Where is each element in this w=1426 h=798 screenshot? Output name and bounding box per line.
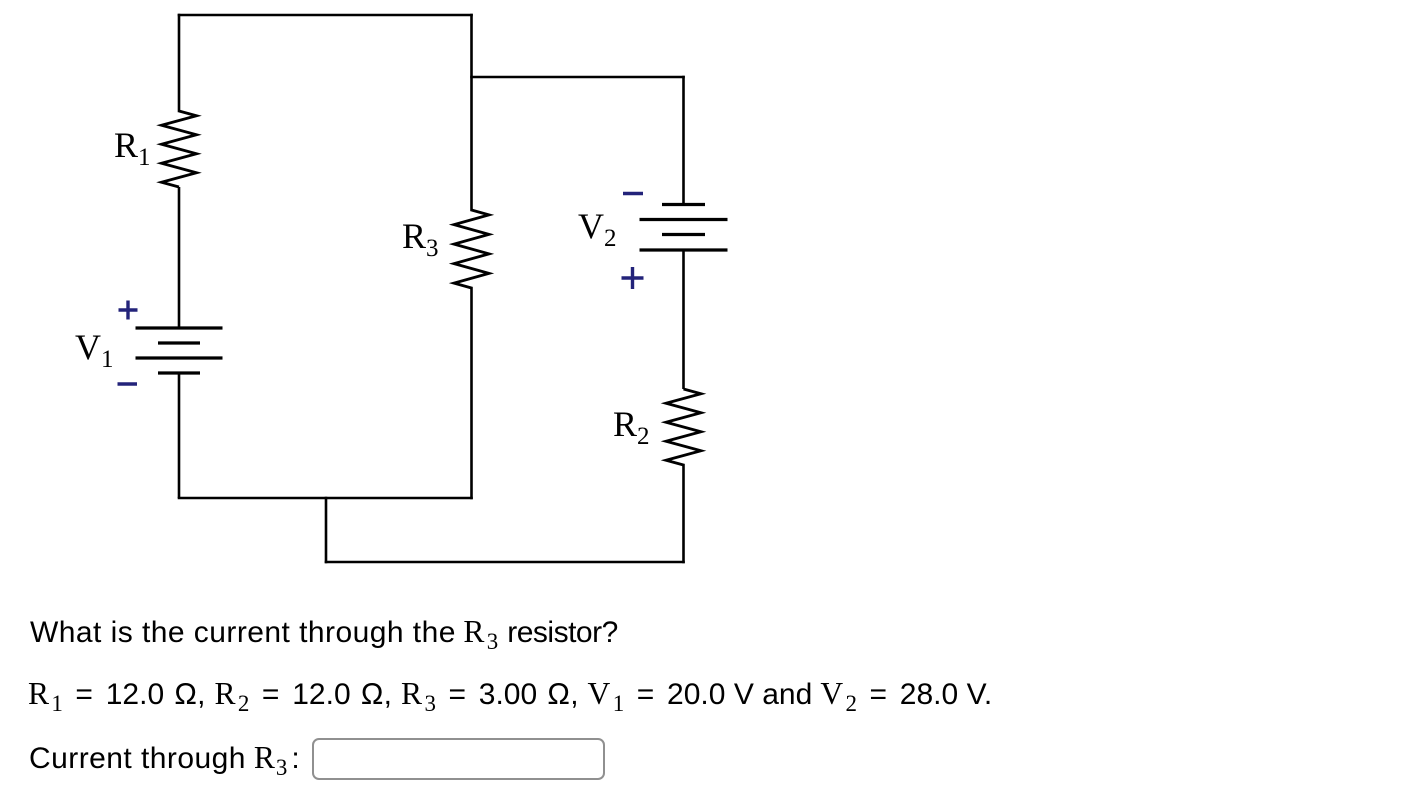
battery V1 plate long top [136,326,223,329]
battery V2 plate short bottom [662,233,705,236]
wire second horizontal [472,76,684,79]
battery V2 plate long bottom [640,248,728,251]
battery V2 plate long [640,218,728,221]
wire left vertical middle [178,187,181,327]
svg-text:R3: R3 [402,216,439,262]
svg-text:V1: V1 [75,327,114,373]
wire middle vertical lower [470,288,473,498]
resistor R1 [162,111,197,187]
wire bottom horizontal left loop [179,497,472,500]
wire middle vertical upper [470,15,473,210]
battery V2 minus sign [623,192,643,195]
wire left vertical upper [178,15,181,111]
svg-text:R1: R1 [114,125,151,171]
resistor R2 [666,389,701,465]
question line 1 [30,612,618,662]
battery V1 plate long bottom [136,356,223,359]
svg-text:R2: R2 [613,404,650,450]
wire right vertical middle [682,250,685,389]
battery V1 plate short [158,341,200,344]
wire bottom horizontal right loop [326,561,684,564]
wire right vertical upper [682,77,685,203]
svg-text:V2: V2 [578,206,617,252]
wire connector vertical junction [325,498,328,562]
battery V2 plate short top [662,203,705,206]
battery V2 plus sign [622,267,644,289]
battery V1 plate short bottom [158,371,200,374]
battery V1 plus sign [119,301,138,320]
wire top horizontal [179,14,472,17]
values line 2 [28,674,992,724]
battery V1 minus sign [118,382,138,385]
resistor R3 [454,210,489,288]
wire right vertical lower [682,465,685,562]
answer input box [312,738,605,780]
wire left vertical lower [178,373,181,498]
answer line 3 [29,738,300,788]
